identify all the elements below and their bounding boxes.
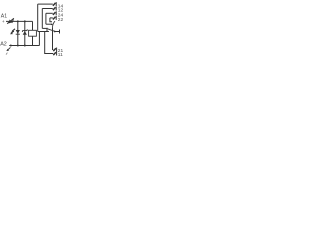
wire bottom rail A2	[9, 45, 39, 47]
node dot A2 lead	[10, 45, 12, 47]
wire rail to crossbar	[38, 32, 40, 46]
svg-text:A1: A1	[1, 13, 7, 19]
wire stub to mid terminal	[54, 31, 59, 33]
wire common 21	[52, 28, 55, 50]
wire coil bottom	[32, 36, 34, 45]
terminal A1 label	[1, 13, 7, 19]
wire contact 12	[42, 8, 53, 10]
svg-text:11: 11	[58, 52, 63, 58]
wire cross bar switch 1	[38, 31, 49, 33]
svg-text:A2: A2	[0, 42, 7, 48]
wire 12 drop	[41, 9, 43, 29]
svg-text:22: 22	[58, 17, 64, 23]
node dot top rail / zener branch	[24, 20, 26, 22]
label 11	[58, 52, 63, 58]
wire top rail A1	[6, 20, 33, 22]
wire 12 elbow	[42, 27, 47, 29]
svg-text:+: +	[2, 20, 5, 25]
relay coil K1	[29, 30, 37, 36]
node dot top rail / LED branch	[17, 20, 19, 22]
wire 14 drop	[37, 4, 39, 31]
wire 24 drop	[45, 13, 47, 24]
wire contact 22	[50, 17, 53, 19]
wire contact 24	[46, 12, 53, 14]
terminal 24 clamp	[53, 12, 56, 15]
node dot LED bottom	[17, 45, 19, 47]
plus polarity sign	[2, 20, 5, 25]
contact stub NC switch 1	[46, 28, 48, 31]
terminal 11 clamp	[53, 52, 56, 55]
wire 24 elbow	[46, 23, 51, 25]
wire common 11	[45, 32, 54, 54]
node dot zener bottom	[24, 45, 26, 47]
label 12	[58, 8, 64, 14]
zener diode Z1	[22, 29, 27, 35]
terminal 14 clamp	[53, 3, 56, 6]
wire LED branch vertical	[17, 21, 19, 45]
wire 22 drop	[50, 18, 52, 22]
terminal 12 clamp	[53, 7, 56, 10]
wire coil feed	[32, 21, 34, 30]
LED V1	[10, 29, 20, 35]
diode D1 series (tilted)	[7, 18, 14, 23]
label 21	[58, 48, 64, 54]
label 24	[58, 13, 64, 19]
minus polarity clamp mark	[6, 47, 10, 54]
wire zener branch vertical	[24, 21, 26, 45]
contact arm switch 2	[53, 21, 56, 28]
wire contact 14	[38, 3, 53, 5]
label 22	[58, 17, 64, 23]
terminal A2 label	[0, 42, 7, 48]
terminal 21 clamp	[53, 48, 56, 51]
label 14	[58, 3, 64, 9]
contact dot NC switch 2	[51, 24, 53, 26]
contact arm switch 1	[48, 29, 55, 31]
terminal 22 clamp	[53, 17, 56, 20]
